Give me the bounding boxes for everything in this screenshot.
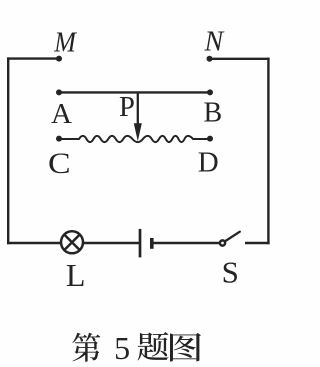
wire left vertical (7, 59, 9, 243)
switch S pivot (220, 240, 225, 245)
switch S lever (226, 232, 240, 241)
node C (56, 136, 62, 142)
resistance wire C-D (59, 136, 210, 142)
lamp L1 (61, 231, 83, 253)
node M (56, 56, 62, 62)
node D (207, 136, 213, 142)
svg-text:D: D (198, 147, 219, 179)
svg-text:B: B (204, 98, 223, 129)
svg-text:L: L (66, 257, 86, 293)
svg-text:M: M (53, 26, 77, 57)
wire lamp to battery (83, 242, 139, 244)
rheostat bar A-B (59, 91, 210, 93)
wire battery to switch (153, 242, 220, 244)
node A (56, 89, 62, 95)
wire top-right (N to right corner) (210, 58, 269, 60)
wire top-left (left corner to M) (8, 57, 59, 59)
node B (207, 89, 213, 95)
slider P arrowhead (134, 123, 142, 141)
battery short plate (150, 238, 154, 249)
svg-text:P: P (119, 92, 135, 123)
svg-text:S: S (222, 254, 239, 289)
slider P shaft (137, 92, 139, 126)
node N (207, 56, 213, 62)
wire bottom-left (corner to lamp) (8, 242, 61, 244)
caption char 3: 题 (138, 332, 169, 360)
battery long plate (139, 229, 142, 258)
caption char 1: 第 (72, 333, 100, 362)
svg-text:C: C (48, 146, 71, 180)
svg-text:A: A (51, 98, 72, 130)
wire right vertical (267, 59, 269, 243)
caption char 4: 图 (170, 333, 201, 362)
svg-text:5: 5 (114, 330, 130, 366)
wire switch stub to right corner (246, 242, 268, 244)
svg-text:N: N (204, 27, 225, 58)
